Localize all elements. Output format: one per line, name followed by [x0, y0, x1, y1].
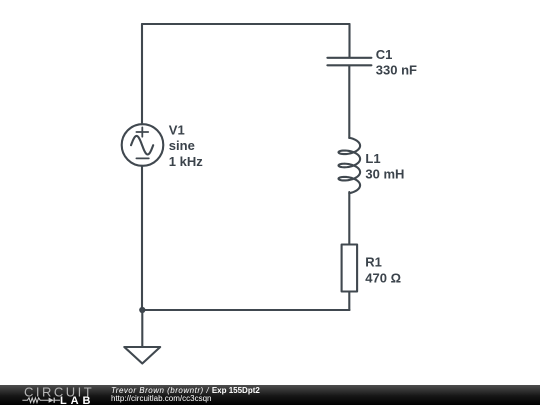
V1 plus sign [136, 127, 148, 136]
wire bottom [142, 309, 350, 311]
voltage source V1 [122, 124, 164, 166]
ground [124, 347, 160, 364]
wire resistor to bottom [348, 292, 350, 311]
wire cap to coil [348, 66, 350, 138]
svg-text:470 Ω: 470 Ω [365, 270, 401, 285]
svg-text:V1: V1 [169, 123, 185, 138]
svg-text:1 kHz: 1 kHz [169, 154, 203, 169]
svg-text:sine: sine [169, 138, 195, 153]
junction node [139, 307, 145, 313]
svg-text:30 mH: 30 mH [365, 166, 404, 181]
svg-text:L1: L1 [365, 151, 380, 166]
wire left upper [141, 24, 143, 124]
V1 minus sign [136, 157, 148, 159]
wire to ground [141, 310, 143, 347]
svg-text:330 nF: 330 nF [376, 63, 417, 78]
wire top [142, 23, 350, 25]
V1 sine waveform [131, 136, 153, 155]
wire left lower [141, 166, 143, 310]
svg-text:R1: R1 [365, 255, 382, 270]
wire right upper [348, 24, 350, 57]
wire coil to resistor [348, 192, 350, 245]
capacitor C1 [327, 58, 371, 66]
svg-text:C1: C1 [376, 47, 393, 62]
inductor L1 [339, 138, 361, 193]
svg-text:LAB: LAB [60, 395, 94, 405]
resistor R1 [342, 245, 358, 292]
